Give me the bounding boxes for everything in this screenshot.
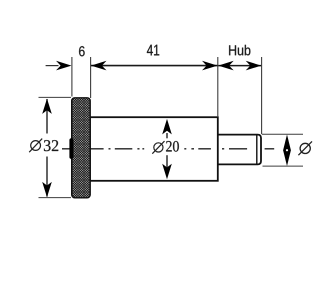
right diameter bottom extension line xyxy=(263,165,304,167)
extension line above flange left edge xyxy=(71,57,73,97)
body cylinder outline (41 long, d20) xyxy=(90,117,218,181)
d20 down arrow xyxy=(162,164,172,180)
d32 diameter symbol xyxy=(31,141,41,151)
extension line above body right edge xyxy=(217,57,219,117)
dimension Hub: right arrow xyxy=(246,61,262,71)
label 32 xyxy=(44,140,58,151)
d32 dimension line lower segment xyxy=(46,157,48,197)
label 6 xyxy=(79,46,85,56)
extension line above stub end xyxy=(261,57,263,134)
body cylinder fill xyxy=(90,117,218,181)
d32 down arrow xyxy=(42,182,52,197)
dimension 6: leader line xyxy=(46,65,59,67)
d32 bottom extension line xyxy=(39,197,72,199)
right diameter symbol xyxy=(300,143,310,153)
label Hub xyxy=(229,45,250,56)
dimension Hub: left arrow xyxy=(218,61,234,71)
dimension 41: left arrow xyxy=(91,61,107,71)
dimension 6: arrow pointing right at flange left xyxy=(56,61,72,71)
right diameter double arrow (diamond) xyxy=(283,135,291,167)
piston rod stub outline (Hub) xyxy=(218,135,261,165)
flange / piston (hatched, d32 x 6) xyxy=(72,98,91,198)
label 20 xyxy=(166,141,179,152)
extension line above flange right edge xyxy=(90,57,92,98)
dimension 41: line xyxy=(91,65,218,67)
d32 top extension line xyxy=(39,96,72,98)
right diameter top extension line xyxy=(262,133,303,135)
d32 dimension line upper segment xyxy=(46,99,48,134)
label 41 xyxy=(147,45,159,56)
d32 up arrow xyxy=(42,99,52,114)
piston rod stub fill xyxy=(218,135,261,165)
stub end chamfer line xyxy=(256,135,258,163)
dimension 41: right arrow xyxy=(202,61,218,71)
d20 up arrow xyxy=(162,119,172,134)
black seal pad on flange left edge xyxy=(69,138,73,159)
dimension Hub: line xyxy=(218,65,261,67)
d20 diameter symbol xyxy=(154,143,163,152)
centerline axis (dash-dot segments) xyxy=(62,148,274,150)
